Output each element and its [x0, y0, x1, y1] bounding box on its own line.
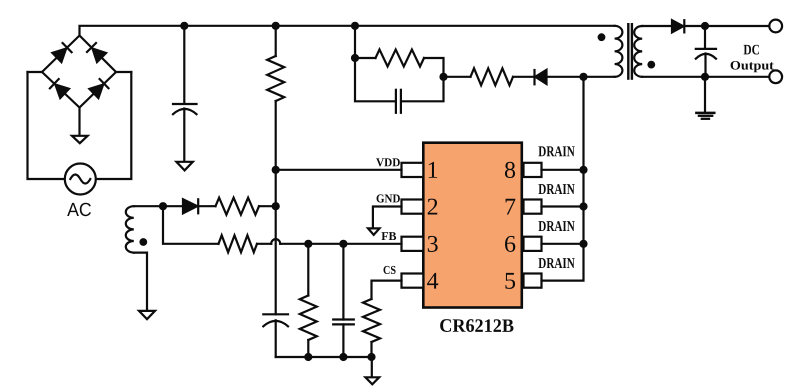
pin 4 box — [402, 274, 424, 288]
wire FB (pin 3) — [163, 206, 402, 244]
AC source V1 — [65, 164, 96, 195]
wire GND (pin 2) — [373, 207, 402, 229]
wire secondary top — [642, 25, 672, 27]
capacitor C2 (VDD) — [263, 314, 288, 357]
svg-text:Output: Output — [730, 59, 775, 73]
wire bottom rail — [276, 356, 372, 358]
wire secondary bottom — [642, 76, 769, 78]
resistor R3 (clamp series) — [444, 68, 535, 85]
diode D6 (output rectifier) — [672, 20, 769, 32]
node junction dots — [159, 22, 709, 361]
wire AC right rail — [96, 72, 132, 179]
svg-text:2: 2 — [427, 194, 439, 220]
wire pin 7 drain — [542, 205, 584, 207]
aux winding L1 — [126, 206, 134, 252]
svg-text:8: 8 — [504, 158, 516, 184]
svg-text:DRAIN: DRAIN — [538, 256, 575, 272]
wire aux top — [134, 205, 183, 207]
svg-text:GND: GND — [376, 191, 401, 205]
IC U1 CR6212B body — [423, 143, 522, 308]
wire pin 6 drain — [542, 243, 584, 245]
pin 6 box — [524, 237, 542, 251]
resistor R5 (FB row) — [219, 235, 258, 252]
svg-text:FB: FB — [381, 229, 396, 243]
pin 7 box — [524, 200, 542, 214]
wire AC left rail — [28, 72, 65, 179]
resistor R2 (snubber) — [355, 50, 444, 77]
ground (bridge negative) — [72, 108, 88, 144]
transformer T1 primary — [615, 26, 623, 77]
pin 3 box — [402, 237, 424, 251]
wire top HV bus — [80, 26, 615, 36]
ground (bottom rail) — [365, 357, 379, 384]
capacitor C1 (bulk input) — [173, 26, 197, 162]
bridge rectifier BR1 — [28, 36, 132, 108]
svg-text:DRAIN: DRAIN — [538, 144, 575, 160]
wire drain row to primary — [584, 76, 615, 78]
resistor R4 (aux series) — [216, 198, 276, 215]
wire pin 5 drain — [542, 77, 584, 281]
wire aux bottom to ground — [134, 253, 147, 311]
transformer T1 secondary — [634, 26, 642, 77]
terminal output + — [769, 20, 782, 33]
wire VDD vertical to C2 — [275, 170, 277, 314]
pin 8 box — [524, 163, 542, 177]
resistor R7 (CS sense) — [363, 299, 380, 357]
terminal output - — [769, 70, 782, 83]
transformer T1 core — [628, 24, 632, 78]
ground (aux winding) — [139, 311, 155, 319]
diode D4 (bridge bottom-right) — [89, 79, 108, 98]
svg-text:CS: CS — [383, 263, 396, 277]
svg-text:DC: DC — [743, 42, 760, 58]
pin 5 box — [524, 274, 542, 288]
svg-text:7: 7 — [504, 194, 516, 220]
svg-text:DRAIN: DRAIN — [538, 219, 575, 235]
capacitor C3 (snubber) — [355, 58, 444, 113]
capacitor C4 (output) — [696, 26, 716, 77]
ground (C1) — [176, 162, 192, 171]
ground (output earth) — [696, 77, 714, 119]
pin 1 box — [402, 163, 424, 177]
wire VDD (pin 1) — [276, 169, 402, 171]
svg-text:AC: AC — [67, 200, 92, 221]
svg-text:DRAIN: DRAIN — [538, 182, 575, 198]
diode D5 (clamp) — [535, 70, 584, 85]
svg-text:3: 3 — [427, 232, 439, 258]
node aux phase dot — [139, 238, 147, 246]
diode D7 (aux rectifier) — [183, 199, 216, 213]
snubber node wire — [354, 26, 356, 58]
wire CS (pin 4) — [372, 281, 402, 299]
diode D2 (bridge top-right) — [87, 43, 106, 62]
ground (GND pin) — [368, 228, 380, 235]
wire pin 8 drain — [542, 169, 584, 171]
pin 2 box — [402, 200, 424, 214]
svg-text:VDD: VDD — [376, 155, 401, 169]
resistor R1 (startup, HV bus to VDD) — [267, 26, 284, 170]
capacitor C5 (FB) — [333, 244, 354, 357]
svg-text:1: 1 — [427, 158, 439, 184]
svg-text:5: 5 — [504, 269, 516, 295]
node primary phase dot — [598, 33, 606, 41]
node secondary phase dot — [647, 61, 655, 69]
resistor R6 (FB to gnd) — [300, 244, 317, 357]
svg-text:4: 4 — [427, 269, 439, 295]
diode D1 (bridge top-left) — [52, 43, 71, 62]
svg-text:CR6212B: CR6212B — [439, 316, 514, 337]
diode D3 (bridge bottom-left) — [50, 79, 69, 98]
svg-text:6: 6 — [504, 232, 516, 258]
